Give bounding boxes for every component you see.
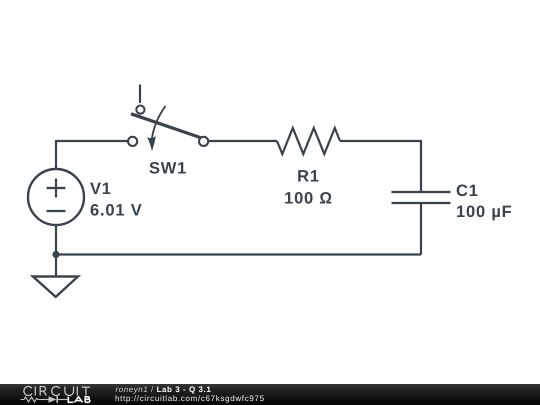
logo letter U <box>65 387 74 396</box>
switch SW1 top terminal circle <box>136 106 144 114</box>
logo resistor squiggle <box>21 397 42 402</box>
logo letter A <box>75 397 83 403</box>
junction node dot <box>52 251 59 258</box>
switch SW1 blade <box>131 114 201 138</box>
switch SW1 right terminal circle <box>199 137 208 146</box>
logo letter R <box>40 387 46 396</box>
switch SW1 arrowhead <box>147 136 156 151</box>
logo wire to LAB <box>58 399 68 401</box>
logo diode triangle <box>49 396 57 403</box>
svg-text:R1: R1 <box>297 168 320 186</box>
svg-text:C1: C1 <box>456 182 479 200</box>
wire right of switch to resistor <box>209 140 278 142</box>
wire capacitor bottom to bottom rail <box>420 203 422 255</box>
svg-text:V1: V1 <box>90 180 112 198</box>
wire resistor to top-right corner and down to capacitor <box>340 141 421 192</box>
svg-text:6.01 V: 6.01 V <box>90 202 143 220</box>
switch SW1 actuation arc <box>152 106 166 139</box>
svg-text:100 Ω: 100 Ω <box>284 190 333 208</box>
svg-text:100 µF: 100 µF <box>456 203 513 221</box>
switch SW1 left terminal circle <box>128 137 137 146</box>
logo letter L <box>68 397 73 403</box>
capacitor C1 bottom plate <box>392 202 451 204</box>
V1 minus sign <box>47 210 66 212</box>
logo diode cathode bar <box>56 396 58 403</box>
wire ground stub <box>55 255 57 277</box>
wire V1 bottom stub <box>55 225 57 255</box>
voltage source V1 body <box>28 169 84 225</box>
resistor R1 <box>277 128 340 154</box>
logo letter C <box>24 387 32 396</box>
logo letter T <box>82 387 90 395</box>
wire top from V1 to switch left terminal <box>56 140 128 142</box>
logo letter I <box>76 387 78 396</box>
logo wire to diode <box>41 399 49 401</box>
footer bar <box>0 384 540 405</box>
logo letter B <box>85 397 90 403</box>
CircuitLab logo <box>0 384 110 405</box>
V1 plus sign <box>47 179 66 198</box>
capacitor C1 top plate <box>392 191 451 193</box>
ground <box>33 277 78 297</box>
wire bottom rail <box>56 253 421 255</box>
svg-text:SW1: SW1 <box>149 160 187 178</box>
switch SW1 top stub <box>139 85 141 104</box>
wire V1 top stub <box>55 140 57 170</box>
logo letter I <box>34 387 36 396</box>
logo letter C <box>52 387 60 396</box>
